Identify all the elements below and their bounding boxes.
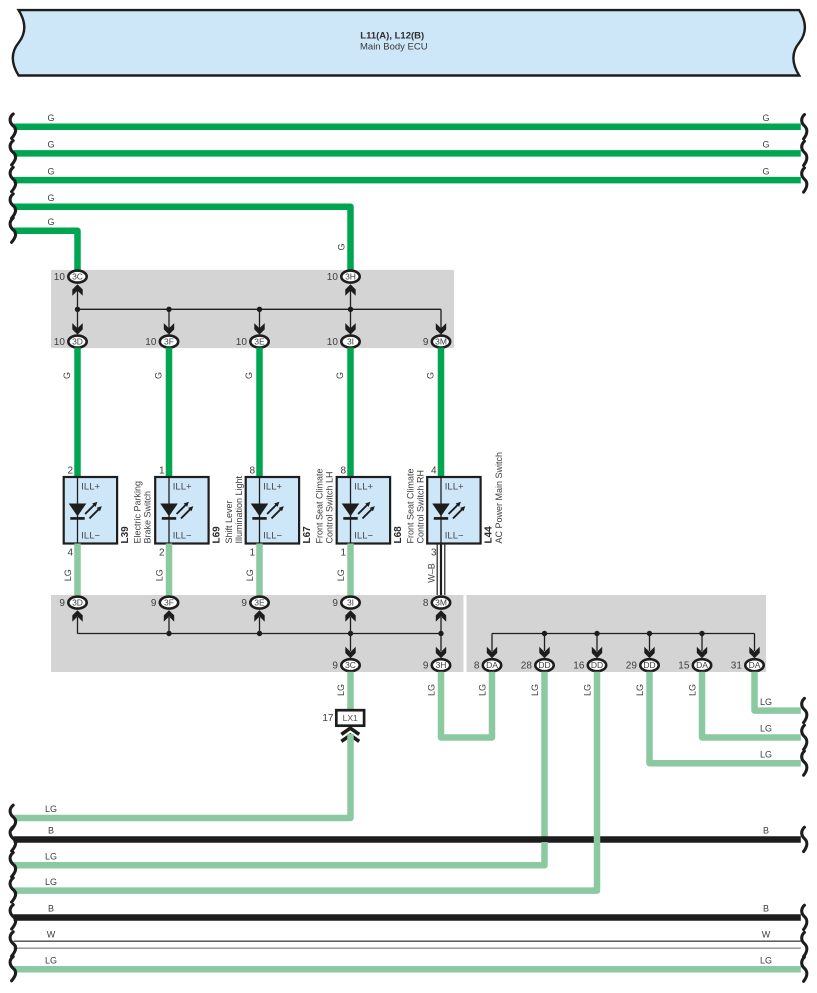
svg-text:9: 9: [332, 598, 338, 609]
svg-text:B: B: [763, 826, 769, 836]
svg-text:10: 10: [236, 337, 248, 348]
male-female connector chevrons below LX1: [341, 728, 359, 741]
svg-text:ILL+: ILL+: [445, 482, 464, 493]
svg-text:Front Seat Climate: Front Seat Climate: [406, 468, 416, 543]
connector 3I pin 9 (lower band top): [332, 597, 359, 634]
svg-text:ILL−: ILL−: [263, 531, 282, 542]
svg-text:17: 17: [322, 713, 334, 724]
wire LG below component L69: [155, 544, 170, 597]
svg-text:8: 8: [423, 598, 429, 609]
svg-text:LG: LG: [63, 569, 73, 581]
connector DD pin 29 (lower band right): [626, 634, 659, 672]
svg-text:3C: 3C: [345, 660, 356, 670]
svg-text:28: 28: [521, 661, 533, 672]
svg-text:ILL+: ILL+: [354, 482, 373, 493]
svg-text:LG: LG: [45, 852, 57, 862]
svg-text:G: G: [762, 113, 769, 123]
svg-text:Electric Parking: Electric Parking: [133, 481, 143, 544]
svg-text:W: W: [47, 929, 56, 939]
svg-text:9: 9: [59, 598, 65, 609]
upper band bus line: [78, 309, 442, 329]
svg-text:9: 9: [241, 598, 247, 609]
svg-text:Control Switch RH: Control Switch RH: [416, 470, 426, 544]
svg-text:G: G: [337, 243, 347, 250]
svg-text:LG: LG: [336, 684, 346, 696]
connector 3F pin 10 (upper band bottom): [145, 309, 178, 348]
svg-text:DA: DA: [749, 660, 761, 670]
svg-text:3H: 3H: [436, 660, 447, 670]
wire G bus 3 (full width): [10, 166, 807, 192]
svg-text:G: G: [335, 372, 345, 379]
svg-text:ILL−: ILL−: [173, 531, 192, 542]
component L67 Front Seat Climate Control Switch LH: [246, 466, 335, 559]
svg-text:3E: 3E: [254, 598, 265, 608]
svg-text:1: 1: [340, 548, 346, 559]
svg-text:G: G: [47, 217, 54, 227]
wire W-B below component L44: [427, 544, 445, 597]
connector 3E pin 10 (upper band bottom): [236, 309, 269, 348]
wire B bus 2 (full width): [10, 904, 807, 930]
connector 3D pin 9 (lower band top): [59, 597, 86, 622]
wire G bus 2 (full width): [10, 140, 807, 166]
svg-text:L39: L39: [120, 526, 131, 544]
svg-text:1: 1: [159, 466, 165, 477]
wire G column 3 to component: [244, 348, 260, 479]
connector 3F pin 9 (lower band top): [151, 597, 178, 634]
connector 3D pin 10 (upper band bottom): [54, 309, 87, 348]
svg-text:ILL−: ILL−: [81, 531, 100, 542]
svg-text:AC Power Main Switch: AC Power Main Switch: [494, 452, 504, 544]
svg-text:LX1: LX1: [343, 713, 358, 723]
connector DA pin 15 (lower band right): [678, 634, 711, 672]
svg-text:L69: L69: [212, 526, 223, 544]
svg-text:4: 4: [431, 466, 437, 477]
wire LG below component L39: [63, 544, 78, 597]
svg-text:B: B: [48, 826, 54, 836]
svg-text:LG: LG: [760, 697, 772, 707]
svg-text:3F: 3F: [164, 337, 174, 347]
wire LG connector 3H to connector DA pin 8: [427, 672, 493, 738]
svg-text:LG: LG: [635, 684, 645, 696]
svg-text:W–B: W–B: [427, 563, 437, 583]
wire G column 5 to component: [426, 348, 442, 479]
svg-text:G: G: [762, 140, 769, 150]
connector DA pin 31 (lower band right): [731, 634, 764, 672]
svg-text:G: G: [47, 113, 54, 123]
Main Body ECU block L11(A), L12(B): [13, 10, 805, 75]
svg-text:Brake Switch: Brake Switch: [143, 491, 153, 544]
svg-text:ILL+: ILL+: [173, 482, 192, 493]
upper connector band (ECU side): [51, 270, 454, 348]
svg-text:3F: 3F: [164, 598, 174, 608]
junction connector LX1 pin 17: [322, 710, 364, 726]
svg-text:3M: 3M: [435, 598, 447, 608]
svg-text:LG: LG: [688, 684, 698, 696]
svg-text:10: 10: [54, 272, 66, 283]
wire LG below component L67: [245, 544, 260, 597]
lower connector band right (ECU side): [467, 595, 767, 672]
wire LG connector DD pin 16 to left edge: [10, 672, 597, 902]
svg-text:10: 10: [327, 337, 339, 348]
junction dots lower left band: [166, 631, 443, 636]
svg-text:3: 3: [431, 548, 437, 559]
svg-text:LG: LG: [760, 749, 772, 759]
lower connector band left (ECU side): [51, 595, 464, 672]
svg-text:10: 10: [145, 337, 157, 348]
svg-text:3D: 3D: [72, 337, 83, 347]
wire G column 4 to component: [335, 348, 351, 479]
component L44 AC Power Main Switch: [427, 452, 504, 559]
connector DD pin 28 (lower band right): [521, 634, 554, 672]
svg-text:LG: LG: [245, 569, 255, 581]
wire G bus 5 to connector 3C: [10, 217, 77, 271]
connector 3H pin 9 (lower band bottom): [423, 634, 450, 672]
svg-text:LG: LG: [45, 877, 57, 887]
svg-text:LG: LG: [760, 724, 772, 734]
svg-text:8: 8: [340, 466, 346, 477]
svg-text:ILL+: ILL+: [263, 482, 282, 493]
wire G bus 1 (full width): [10, 113, 807, 139]
svg-text:LG: LG: [427, 684, 437, 696]
svg-text:DD: DD: [591, 660, 603, 670]
svg-text:LG: LG: [583, 684, 593, 696]
svg-text:10: 10: [54, 337, 66, 348]
connector 3C pin 10 (upper band top): [54, 271, 87, 310]
svg-text:3I: 3I: [347, 337, 354, 347]
connector 3H pin 10 (upper band top): [327, 271, 360, 310]
svg-text:2: 2: [67, 466, 73, 477]
wire LG from LX1 to left edge: [10, 734, 350, 830]
svg-text:1: 1: [249, 548, 255, 559]
svg-text:L11(A), L12(B): L11(A), L12(B): [360, 31, 424, 42]
svg-text:2: 2: [159, 548, 165, 559]
connector 3C pin 9 (lower band bottom): [332, 634, 359, 672]
connector DA pin 8 (lower band right): [474, 634, 501, 672]
svg-text:4: 4: [67, 548, 73, 559]
wire LG connector DD pin 28 to left edge: [10, 842, 544, 877]
svg-text:DA: DA: [696, 660, 708, 670]
svg-text:LG: LG: [336, 569, 346, 581]
svg-text:DD: DD: [643, 660, 655, 670]
svg-text:LG: LG: [45, 956, 57, 966]
svg-text:B: B: [48, 904, 54, 914]
svg-text:B: B: [763, 904, 769, 914]
svg-text:LG: LG: [155, 569, 165, 581]
svg-text:Main Body ECU: Main Body ECU: [360, 42, 428, 53]
wire LG bus bottom (full width): [10, 956, 807, 982]
svg-text:3D: 3D: [72, 598, 83, 608]
svg-text:3E: 3E: [254, 337, 265, 347]
wire LG connector DD pin 28 (upper part): [530, 672, 545, 842]
connector DD pin 16 (lower band right): [573, 634, 606, 672]
wire LG connector DA pin 15 to right edge: [688, 672, 807, 750]
junction dots upper band: [75, 307, 353, 312]
wire G column 1 to component: [62, 348, 78, 479]
svg-text:8: 8: [474, 661, 480, 672]
component L69 Shift Lever Illumination Light: [155, 466, 244, 559]
svg-text:9: 9: [423, 337, 429, 348]
connector 3I pin 10 (upper band bottom): [327, 309, 360, 348]
wire G bus 4 to connector 3H: [10, 193, 350, 271]
svg-text:9: 9: [423, 661, 429, 672]
svg-text:29: 29: [626, 661, 638, 672]
svg-text:3M: 3M: [435, 337, 447, 347]
svg-text:LG: LG: [530, 684, 540, 696]
svg-text:G: G: [62, 372, 72, 379]
svg-text:ILL−: ILL−: [354, 531, 373, 542]
svg-text:G: G: [426, 372, 436, 379]
svg-text:G: G: [47, 193, 54, 203]
wire LG below component L68: [336, 544, 351, 597]
wire LG connector DA pin 31 to right edge: [755, 672, 807, 723]
svg-text:G: G: [47, 140, 54, 150]
svg-text:Illumination Light: Illumination Light: [234, 475, 244, 543]
svg-text:G: G: [154, 372, 164, 379]
wire LG connector 3C to junction LX1: [336, 672, 351, 711]
wire LG connector DD pin 29 to right edge: [635, 672, 807, 775]
svg-text:G: G: [762, 166, 769, 176]
svg-text:3H: 3H: [345, 272, 356, 282]
svg-text:Shift Lever: Shift Lever: [224, 500, 234, 543]
connector 3E pin 9 (lower band top): [241, 597, 268, 634]
wire G column 2 to component: [154, 348, 170, 479]
svg-text:8: 8: [249, 466, 255, 477]
svg-text:LG: LG: [760, 956, 772, 966]
svg-text:Control Switch LH: Control Switch LH: [325, 471, 335, 543]
svg-text:DA: DA: [486, 660, 498, 670]
svg-text:31: 31: [731, 661, 743, 672]
svg-text:G: G: [47, 166, 54, 176]
svg-text:3I: 3I: [347, 598, 354, 608]
svg-text:10: 10: [327, 272, 339, 283]
svg-text:L44: L44: [484, 526, 495, 544]
lower band right bus line: [492, 633, 755, 635]
component L39 Electric Parking Brake Switch: [64, 466, 153, 559]
lower band left bus line: [78, 617, 442, 634]
svg-text:LG: LG: [45, 804, 57, 814]
wire B bus 1 (full width): [10, 826, 807, 852]
connector 3M pin 8 (lower band top): [423, 597, 450, 634]
svg-text:ILL+: ILL+: [81, 482, 100, 493]
wire W bus (full width): [10, 929, 807, 956]
svg-text:W: W: [762, 929, 771, 939]
svg-text:ILL−: ILL−: [445, 531, 464, 542]
component L68 Front Seat Climate Control Switch RH: [337, 466, 426, 559]
svg-text:Front Seat Climate: Front Seat Climate: [315, 468, 325, 543]
svg-text:3C: 3C: [72, 272, 83, 282]
svg-text:15: 15: [678, 661, 690, 672]
svg-text:G: G: [244, 372, 254, 379]
svg-text:16: 16: [573, 661, 585, 672]
svg-text:L68: L68: [393, 526, 404, 544]
connector 3M pin 9 (upper band bottom): [423, 323, 450, 348]
svg-text:DD: DD: [538, 660, 550, 670]
svg-text:LG: LG: [478, 684, 488, 696]
svg-text:9: 9: [332, 661, 338, 672]
svg-text:9: 9: [151, 598, 157, 609]
junction dots lower right band: [542, 631, 705, 636]
svg-text:L67: L67: [302, 526, 313, 544]
